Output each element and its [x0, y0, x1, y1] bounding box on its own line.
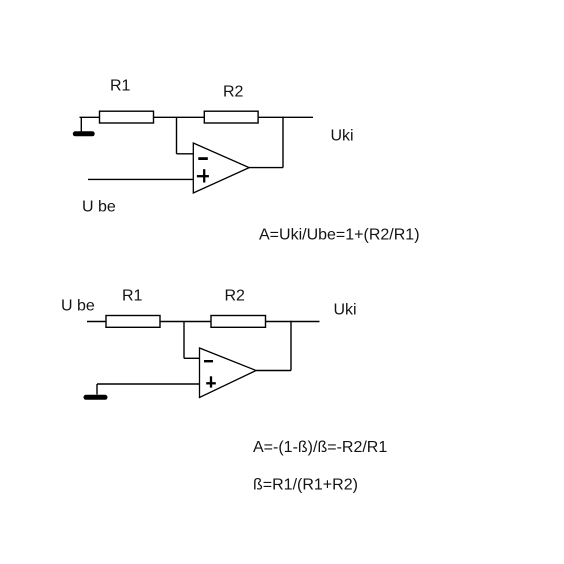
wire: bottom circuit non-inverting input [97, 383, 200, 385]
svg-text:A=-(1-ß)/ß=-R2/R1: A=-(1-ß)/ß=-R2/R1 [253, 439, 387, 456]
svg-text:ß=R1/(R1+R2): ß=R1/(R1+R2) [253, 477, 358, 494]
wire: bottom circuit feedback vertical [290, 321, 292, 371]
resistor R1 (top circuit) [100, 111, 154, 123]
op-amp U2 minus pin symbol [204, 360, 213, 362]
wire: top circuit non-inverting input [88, 178, 193, 180]
op-amp U2 plus pin symbol [206, 376, 216, 387]
wire: top circuit node to inverting input vertical [176, 117, 178, 154]
wire: bottom circuit ground stub [96, 384, 98, 395]
ground (bottom circuit) [86, 395, 105, 400]
svg-text:Uki: Uki [331, 128, 354, 145]
wire: top circuit output horizontal [249, 167, 283, 169]
op-amp U1 (top circuit) [193, 143, 249, 193]
wire: top circuit ground stub [80, 117, 82, 133]
resistor R2 (top circuit) [204, 111, 258, 123]
wire: top circuit inverting input horizontal [177, 153, 194, 155]
svg-text:R1: R1 [122, 288, 143, 305]
op-amp U1 plus pin symbol [197, 169, 209, 182]
ground (top circuit) [75, 131, 92, 136]
resistor R1 (bottom circuit) [106, 316, 160, 328]
wire: bottom circuit inverting input horizontal [184, 357, 200, 359]
svg-text:R2: R2 [225, 288, 246, 305]
wire: bottom circuit output horizontal [256, 370, 291, 372]
wire: top circuit feedback vertical [282, 117, 284, 168]
op-amp U1 minus pin symbol [198, 157, 208, 160]
svg-text:R1: R1 [110, 77, 131, 94]
wire: top circuit main horizontal rail [80, 116, 314, 118]
svg-text:U be: U be [61, 298, 95, 315]
op-amp U2 (bottom circuit) [200, 348, 257, 398]
svg-text:U be: U be [82, 199, 116, 216]
svg-text:R2: R2 [223, 84, 244, 101]
svg-text:A=Uki/Ube=1+(R2/R1): A=Uki/Ube=1+(R2/R1) [259, 227, 420, 244]
wire: bottom circuit node to inverting input vertical [183, 322, 185, 359]
resistor R2 (bottom circuit) [211, 316, 266, 328]
wire: bottom circuit main horizontal rail [87, 321, 320, 323]
svg-text:Uki: Uki [334, 302, 357, 319]
